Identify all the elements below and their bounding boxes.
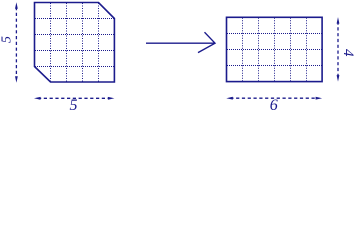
left vertical dimension line [15, 7, 17, 78]
right shape outline (6x4 grid rectangle) [227, 17, 323, 81]
left vertical dimension bottom arrowhead [15, 76, 18, 83]
right bottom dimension right arrowhead [316, 97, 323, 100]
left bottom dimension left arrowhead [34, 97, 41, 100]
right bottom dimension line [230, 97, 318, 99]
left shape grid horizontal lines [35, 19, 115, 67]
left shape outline (5x5 grid square with cut corners) [35, 3, 115, 83]
right vertical dimension top arrowhead [337, 17, 340, 24]
right vertical dimension bottom arrowhead [337, 75, 340, 82]
svg-text:6: 6 [270, 97, 278, 114]
svg-text:5: 5 [0, 36, 15, 43]
left shape grid vertical lines [51, 3, 99, 83]
left bottom dimension line [38, 97, 111, 99]
right shape grid vertical lines [243, 17, 307, 81]
right vertical dimension line [337, 22, 339, 78]
left bottom dimension right arrowhead [108, 97, 115, 100]
right shape grid horizontal lines [227, 34, 323, 66]
left vertical dimension top arrowhead [15, 2, 18, 9]
right bottom dimension left arrowhead [226, 97, 233, 100]
svg-text:5: 5 [70, 97, 78, 114]
svg-text:4: 4 [340, 49, 356, 57]
transformation arrow [146, 32, 215, 52]
